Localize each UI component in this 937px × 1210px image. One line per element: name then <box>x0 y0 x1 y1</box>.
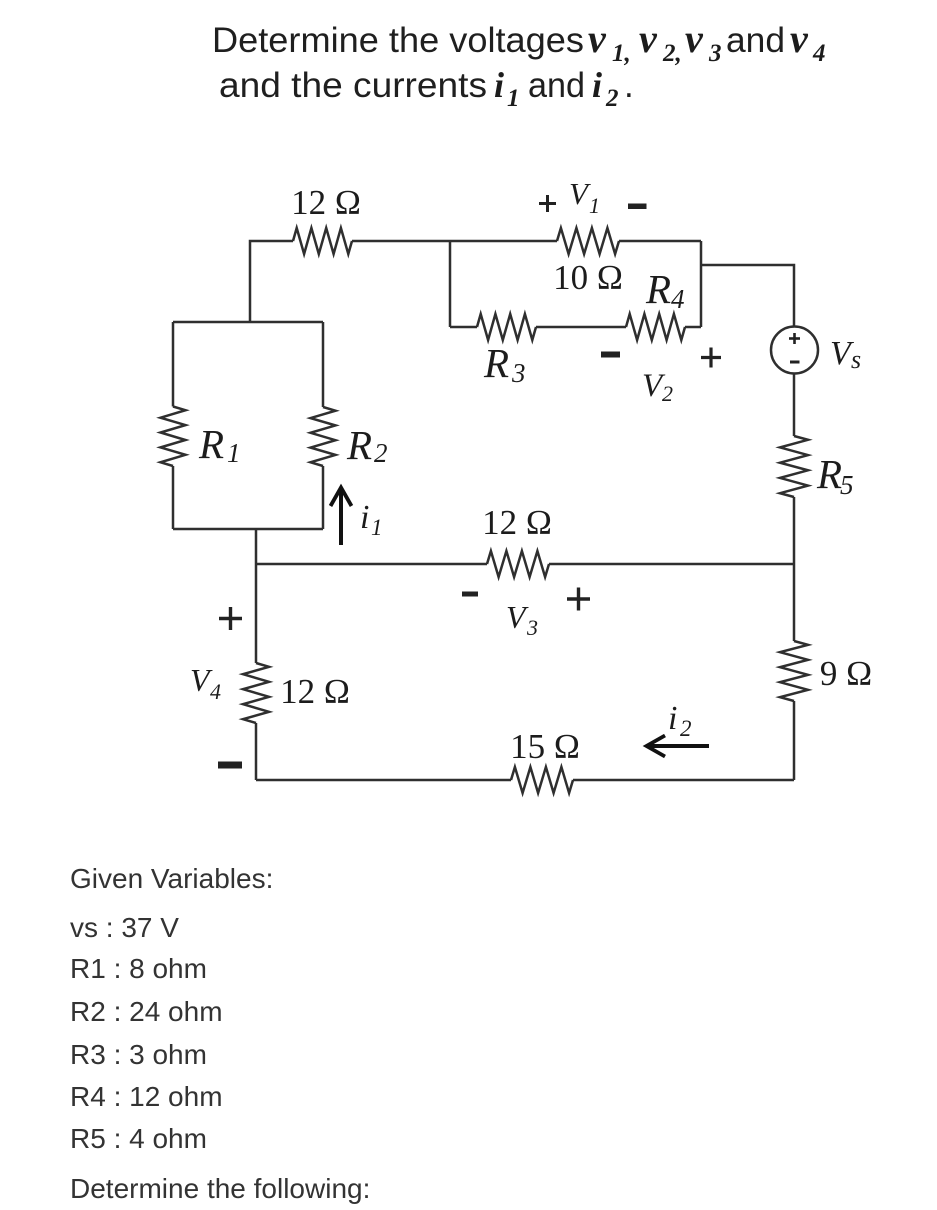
svg-text:1: 1 <box>371 515 383 540</box>
wire source to R5 <box>793 374 796 437</box>
source Vs plus sign <box>789 333 800 344</box>
svg-text:i: i <box>592 65 602 105</box>
svg-text:Given Variables:: Given Variables: <box>70 863 273 894</box>
svg-text:3: 3 <box>526 615 538 640</box>
label R4 <box>645 266 685 314</box>
label minus V1 <box>628 204 647 210</box>
wire rect bottom right <box>685 326 701 329</box>
resistor R3 <box>477 314 536 340</box>
svg-text:R5 : 4 ohm: R5 : 4 ohm <box>70 1123 207 1154</box>
svg-text:12 Ω: 12 Ω <box>280 672 350 711</box>
label V3 <box>506 599 538 640</box>
svg-text:i: i <box>494 65 504 105</box>
wire stub to source <box>701 265 794 327</box>
wire bottom left <box>256 779 511 782</box>
title line 2 <box>219 65 634 112</box>
svg-text:V: V <box>569 176 591 211</box>
resistor 12ohm v4 branch <box>243 663 269 723</box>
label R1 <box>198 421 241 468</box>
svg-text:v: v <box>790 16 809 61</box>
box top <box>173 321 323 324</box>
label minus V4 <box>218 762 242 769</box>
svg-text:R: R <box>346 422 372 468</box>
wire rect right vertical <box>700 241 703 327</box>
svg-text:Determine the following:: Determine the following: <box>70 1173 370 1204</box>
box right upper <box>322 322 325 407</box>
svg-text:1: 1 <box>507 85 520 112</box>
svg-text:v: v <box>639 16 658 61</box>
svg-text:3: 3 <box>708 40 722 67</box>
label plus V4 <box>219 607 242 630</box>
resistor 9ohm <box>780 641 808 701</box>
label R2 <box>346 422 388 468</box>
svg-text:15 Ω: 15 Ω <box>510 727 580 766</box>
svg-text:R: R <box>198 421 224 467</box>
resistor 10ohm <box>557 228 619 254</box>
label V1 <box>569 176 600 218</box>
label Vs <box>830 335 861 374</box>
svg-text:Determine the voltages: Determine the voltages <box>212 21 584 60</box>
wire rect bottom middle <box>536 326 626 329</box>
label V4 <box>190 662 221 704</box>
svg-text:.: . <box>624 66 634 105</box>
label V2 <box>642 368 673 406</box>
svg-text:2: 2 <box>662 381 673 406</box>
svg-text:12 Ω: 12 Ω <box>291 183 361 222</box>
svg-text:2: 2 <box>605 85 619 112</box>
current arrow i2 <box>647 736 710 757</box>
wire right vertical lower <box>793 701 796 780</box>
resistor R5 <box>780 436 808 497</box>
wire top right <box>619 240 701 243</box>
svg-text:2: 2 <box>374 438 388 468</box>
svg-text:R4 : 12 ohm: R4 : 12 ohm <box>70 1081 223 1112</box>
resistor 12ohm top <box>293 228 352 254</box>
wire R5 to middle <box>793 497 796 564</box>
voltage source Vs circle <box>771 327 818 374</box>
svg-text:R1 : 8 ohm: R1 : 8 ohm <box>70 953 207 984</box>
box right lower <box>322 466 325 529</box>
svg-text:5: 5 <box>840 470 854 500</box>
svg-text:R: R <box>645 266 671 312</box>
svg-text:s: s <box>851 345 861 374</box>
svg-text:i: i <box>360 499 369 536</box>
resistor 12ohm middle <box>487 551 549 577</box>
current arrow i1 <box>331 488 352 546</box>
label i1 <box>360 499 383 540</box>
svg-text:i: i <box>668 700 677 737</box>
wire middle right <box>549 563 794 566</box>
svg-text:and the currents: and the currents <box>219 66 487 105</box>
svg-text:2,: 2, <box>662 40 682 67</box>
wire top middle <box>352 240 557 243</box>
label i2 <box>668 700 692 741</box>
wire top-left corner <box>250 241 293 322</box>
resistor R1 <box>161 407 186 467</box>
svg-text:and: and <box>528 66 585 105</box>
svg-text:1: 1 <box>227 438 241 468</box>
svg-text:1,: 1, <box>612 40 631 67</box>
source Vs minus sign <box>790 361 800 364</box>
title line 1 <box>212 16 826 67</box>
wire middle left <box>256 563 487 566</box>
wire v4 lower <box>255 723 258 780</box>
label R5 <box>816 451 854 500</box>
svg-text:3: 3 <box>511 358 526 388</box>
svg-text:4: 4 <box>812 40 826 67</box>
wire bottom right <box>573 779 794 782</box>
label plus V3 <box>567 588 590 611</box>
svg-text:9 Ω: 9 Ω <box>820 654 872 693</box>
box bottom <box>173 528 323 531</box>
label R3 <box>483 340 526 388</box>
svg-text:2: 2 <box>680 716 692 741</box>
svg-text:v: v <box>685 16 704 61</box>
box left upper <box>172 322 175 407</box>
svg-text:10 Ω: 10 Ω <box>553 258 623 297</box>
svg-text:4: 4 <box>671 284 685 314</box>
label minus V3 <box>462 592 478 597</box>
label plus V1 <box>539 195 556 212</box>
svg-text:12 Ω: 12 Ω <box>482 503 552 542</box>
wire rect left vertical <box>449 241 452 327</box>
label minus V2 <box>601 352 620 358</box>
wire right vertical upper <box>793 564 796 641</box>
resistor R4 <box>626 314 685 340</box>
svg-text:1: 1 <box>589 193 600 218</box>
svg-text:v: v <box>588 16 607 61</box>
resistor 15ohm <box>511 767 573 793</box>
svg-text:V: V <box>506 599 529 635</box>
resistor R2 <box>311 407 336 466</box>
svg-text:R3 : 3 ohm: R3 : 3 ohm <box>70 1039 207 1070</box>
svg-text:R: R <box>483 340 509 386</box>
box left lower <box>172 466 175 529</box>
svg-text:4: 4 <box>210 679 221 704</box>
label plus V2 <box>701 348 721 368</box>
svg-text:and: and <box>726 21 785 60</box>
svg-text:R: R <box>816 451 842 497</box>
svg-text:vs : 37 V: vs : 37 V <box>70 912 179 943</box>
wire rect bottom left <box>450 326 477 329</box>
svg-text:R2 : 24 ohm: R2 : 24 ohm <box>70 996 223 1027</box>
wire box to bottom node <box>255 529 258 663</box>
